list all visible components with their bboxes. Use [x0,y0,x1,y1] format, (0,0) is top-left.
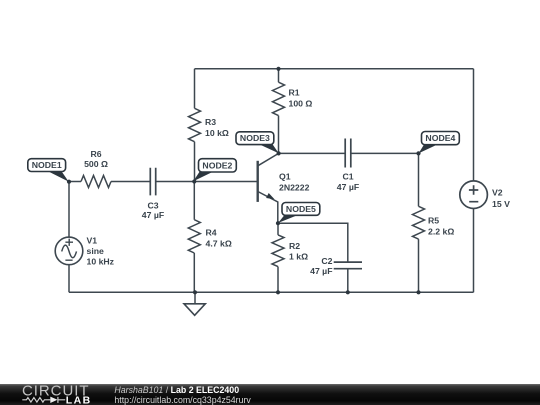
svg-text:Q1: Q1 [279,171,291,181]
svg-text:47 µF: 47 µF [310,266,332,276]
junction ground rail / R2 [276,290,280,294]
svg-text:NODE3: NODE3 [240,133,270,143]
wire V1 bottom lead [68,265,70,293]
svg-text:R4: R4 [206,228,217,238]
junction NODE5 [276,221,280,225]
capacitor C3 47 uF [142,168,164,221]
svg-text:LAB: LAB [66,394,92,405]
junction ground rail / R4 [193,290,197,294]
resistor R5 2.2 kOhm [413,206,455,239]
svg-text:http://circuitlab.com/cq33p4z5: http://circuitlab.com/cq33p4z54rurv [114,395,251,405]
svg-text:NODE4: NODE4 [425,133,455,143]
svg-text:R6: R6 [90,149,101,159]
wire R5 to ground rail [418,239,420,292]
CircuitLab logo [22,382,92,405]
wire top rail to V2 [473,69,475,181]
resistor R6 500 Ohm [81,149,111,188]
resistor R1 100 Ohm [273,82,313,115]
svg-text:1 kΩ: 1 kΩ [289,252,308,262]
svg-text:R2: R2 [289,241,300,251]
svg-text:15 V: 15 V [492,199,510,209]
svg-text:R3: R3 [205,117,216,127]
wire R3 to NODE2 [194,142,196,182]
svg-text:2.2 kΩ: 2.2 kΩ [428,226,454,236]
wire R2 to ground rail [277,267,279,293]
svg-text:R5: R5 [428,215,439,225]
junction NODE2 [192,179,196,183]
wire R4 to ground rail [193,253,195,292]
svg-text:4.7 kΩ: 4.7 kΩ [206,239,232,249]
svg-text:NODE5: NODE5 [286,204,316,214]
wire top rail [195,68,474,70]
svg-text:C2: C2 [321,256,332,266]
wire C1 to NODE4 [351,152,419,154]
svg-text:C1: C1 [342,172,353,182]
svg-text:sine: sine [87,246,105,256]
wire NODE4 to R5 [418,153,420,206]
junction top rail / R1 [276,67,280,71]
transistor Q1 2N2222 [258,153,310,223]
svg-text:10 kHz: 10 kHz [87,256,115,266]
svg-text:47 µF: 47 µF [337,182,359,192]
resistor R3 10 kOhm [189,108,229,141]
svg-text:HarshaB101 / Lab 2 ELEC2400: HarshaB101 / Lab 2 ELEC2400 [114,385,239,395]
wire NODE5 to C2 [278,223,348,262]
wire NODE5 to R2 [277,223,279,235]
svg-text:100 Ω: 100 Ω [289,99,313,109]
svg-text:V2: V2 [492,188,503,198]
node NODE5 [278,203,320,223]
wire V1 top lead [68,182,70,238]
resistor R4 4.7 kOhm [188,220,232,253]
svg-text:V1: V1 [87,236,98,246]
svg-text:47 µF: 47 µF [142,210,164,220]
wire R6 to C3 [111,181,150,183]
resistor R2 1 kOhm [272,235,308,267]
junction NODE1 [67,180,71,184]
junction ground rail / C2 [346,290,350,294]
capacitor C1 47 uF [337,139,359,192]
junction NODE4 [416,151,420,155]
node NODE2 [193,159,236,182]
wire NODE1 to R6 [69,181,81,183]
node NODE3 [236,132,279,153]
svg-text:NODE1: NODE1 [32,160,62,170]
source V1 sine 10 kHz [55,236,114,267]
wire NODE2 to R4 [193,182,195,220]
svg-text:NODE2: NODE2 [202,160,232,170]
capacitor C2 47 uF [310,256,362,276]
svg-text:2N2222: 2N2222 [279,182,310,192]
node NODE1 [28,159,69,182]
source V2 15 V [460,181,510,209]
svg-text:R1: R1 [289,88,300,98]
wire top rail to R3 [194,69,196,109]
wire C3 to Q1 base (through NODE2) [156,181,257,183]
junction NODE3 [277,151,281,155]
wire NODE3 to C1 [279,152,345,154]
wire top rail to R1 [278,69,280,82]
svg-text:10 kΩ: 10 kΩ [205,128,229,138]
junction ground rail / R5 [416,290,420,294]
node NODE4 [419,132,460,154]
wire bottom rail (ground net) [69,291,474,293]
wire C2 to ground rail [347,269,349,292]
ground [184,292,205,315]
svg-text:500 Ω: 500 Ω [84,159,108,169]
wire R1 to NODE3 [278,116,280,154]
wire V2 to bottom rail [473,209,475,293]
svg-text:C3: C3 [147,200,158,210]
